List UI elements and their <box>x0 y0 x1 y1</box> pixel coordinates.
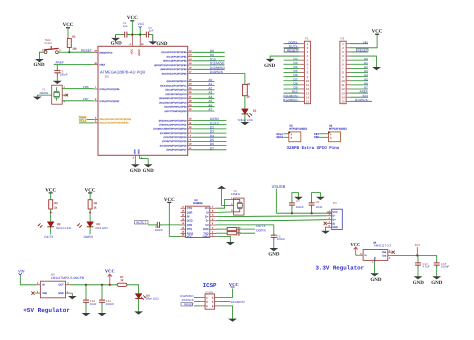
svg-text:100nF: 100nF <box>59 73 67 77</box>
svg-text:4.7uF: 4.7uF <box>422 265 430 269</box>
connector P2 pin 14 <box>341 94 368 100</box>
ICSP pin 3 <box>182 298 209 303</box>
U4 TAB nc <box>388 249 395 254</box>
svg-text:D12/MISO: D12/MISO <box>283 98 298 102</box>
svg-text:D+: D+ <box>205 216 209 219</box>
svg-text:D1/TX: D1/TX <box>44 235 54 239</box>
svg-text:(XTAL2/TOSC2)PB7: (XTAL2/TOSC2)PB7 <box>99 100 120 103</box>
ICSP pin 6 <box>212 305 220 308</box>
ground U4 <box>370 273 382 283</box>
MCU U1 ATMEGA328PB <box>98 46 188 155</box>
svg-text:100nF: 100nF <box>296 205 304 209</box>
svg-text:GND: GND <box>33 62 45 68</box>
wire D4 to gnd <box>138 299 140 312</box>
U3 TAB pin4 <box>31 290 40 294</box>
ICSP pin 4 <box>212 301 220 304</box>
connector P3 USB <box>332 201 343 229</box>
MCU pin analog A3 <box>166 91 215 96</box>
net label RESET U2 <box>134 221 148 225</box>
svg-text:15: 15 <box>306 100 310 104</box>
power flag VCC top <box>127 15 138 34</box>
svg-text:R1: R1 <box>72 35 76 38</box>
svg-text:AREF: AREF <box>99 64 105 67</box>
svg-text:(AIN1/PCINT23)PD7: (AIN1/PCINT23)PD7 <box>166 149 187 152</box>
switch SW1 <box>42 38 61 54</box>
wire U2 D+ to P3 <box>217 215 327 218</box>
power flag VCC 5V out <box>105 269 115 285</box>
svg-text:VCC: VCC <box>105 269 115 274</box>
svg-text:D0/RX: D0/RX <box>84 235 94 239</box>
svg-text:SCL1: SCL1 <box>79 119 87 123</box>
wire VCC to U2 <box>169 235 180 237</box>
wire D2 to label <box>50 227 52 235</box>
svg-text:GND: GND <box>58 292 64 295</box>
connector P1 pin 6 <box>284 61 309 67</box>
MCU pin VCC top <box>130 35 133 47</box>
MCU pin 7 XTAL1 <box>93 86 120 91</box>
svg-text:(MOSI/TXD1/OC2A/PCINT3)PB3: (MOSI/TXD1/OC2A/PCINT3)PB3 <box>154 64 187 67</box>
svg-text:CH340G: CH340G <box>193 202 203 205</box>
connector P2 pin 2 <box>342 46 350 50</box>
connector P1 pin 7 <box>284 65 309 71</box>
svg-text:P2: P2 <box>340 36 344 40</box>
net label SDA1 <box>79 115 94 119</box>
svg-text:RESET: RESET <box>287 49 297 53</box>
wire XI to Y2 <box>217 211 234 214</box>
net label VCC (AVCC feed) <box>138 22 145 34</box>
svg-text:Red LED: Red LED <box>96 226 109 230</box>
ground U3 <box>68 296 77 299</box>
wire Y2 case to gnd <box>222 189 234 206</box>
wire D- continues <box>270 220 327 221</box>
svg-text:SDA1: SDA1 <box>276 136 283 139</box>
connector P1 pin 3 <box>284 49 309 55</box>
svg-text:MTP125-1102E1: MTP125-1102E1 <box>329 128 348 131</box>
wire AREF down to C3 <box>56 65 58 71</box>
svg-text:(SDA0/ADC4/PCINT12)PC4: (SDA0/ADC4/PCINT12)PC4 <box>159 97 187 100</box>
U2 pin CTS <box>181 205 193 210</box>
connector P1 pin 15 <box>283 98 309 104</box>
ground MCU-1 <box>130 164 142 174</box>
ground C7 <box>294 197 303 200</box>
wire D13 to R2 <box>244 74 246 85</box>
wire D1 to gnd <box>244 114 246 122</box>
svg-text:3.3V Regulator: 3.3V Regulator <box>315 265 364 272</box>
connector P2 pin 1 <box>342 40 368 46</box>
junction reset node <box>68 51 70 53</box>
svg-text:(ADC0/PCINT8)PC0: (ADC0/PCINT8)PC0 <box>167 80 188 83</box>
wire P2 pin4 to gnd <box>351 56 377 67</box>
svg-text:DSR: DSR <box>187 211 193 214</box>
svg-text:10uF: 10uF <box>90 302 97 306</box>
svg-text:V3: V3 <box>205 224 209 227</box>
ground D1 <box>241 122 250 125</box>
power flag VCC ICSP <box>229 282 239 287</box>
svg-text:100nF: 100nF <box>277 237 285 241</box>
svg-text:(SCK/XCK1/PCINT5)PB5: (SCK/XCK1/PCINT5)PB5 <box>162 72 188 75</box>
svg-text:(XCK/T0/PCINT20)PD4: (XCK/T0/PCINT20)PD4 <box>164 136 188 139</box>
MCU pin 29 RESET <box>93 50 113 55</box>
ground C8 <box>316 197 325 200</box>
junction R4/D3 <box>89 212 91 214</box>
connector P1 <box>304 36 310 103</box>
wire C4 to DTR <box>160 224 181 226</box>
power flag VCC R3 <box>45 187 56 199</box>
regulator U4 AMS1117-3.3 <box>363 241 391 261</box>
svg-text:LM1117MPX-5.0NCPB: LM1117MPX-5.0NCPB <box>51 276 85 280</box>
svg-text:15: 15 <box>341 100 345 104</box>
MCU pin PD6 net D6 <box>160 142 227 147</box>
MCU GND pin 5 <box>140 155 149 164</box>
capacitor C7 <box>289 193 304 214</box>
P3 pin GND <box>327 224 338 229</box>
MCU pin analog A4 <box>159 95 214 100</box>
connector P2 pin 4 <box>342 54 350 58</box>
ground C11 <box>98 313 107 316</box>
svg-text:GND: GND <box>268 251 280 257</box>
junction C11 <box>101 284 103 286</box>
svg-text:D7: D7 <box>210 146 214 150</box>
wire node to MCU RESET <box>69 51 93 53</box>
connector P2 pin 7 <box>342 65 368 71</box>
net label PB6 U6 <box>314 136 329 139</box>
header U5 <box>288 125 308 142</box>
junction C8 <box>311 212 313 214</box>
svg-text:VCC: VCC <box>131 49 134 54</box>
wire C6 to gnd <box>273 237 275 248</box>
svg-text:(OC0A/AIN0/PCINT22)PD6: (OC0A/AIN0/PCINT22)PD6 <box>160 144 188 147</box>
svg-text:Out: Out <box>382 254 386 257</box>
ground Y1 <box>33 97 42 100</box>
wire C1 to VCC node <box>127 34 140 36</box>
resistor R2 <box>243 83 251 99</box>
wire U3 OUT rail <box>66 282 118 285</box>
U3 GND pin1 <box>66 290 73 296</box>
U2 pin RTS <box>181 226 193 231</box>
svg-text:(OC3B/OC4B/INT0/PCINT18)PD2: (OC3B/OC4B/INT0/PCINT18)PD2 <box>153 128 187 131</box>
svg-text:(SCL0/ADC5/PCINT13)PC5: (SCL0/ADC5/PCINT13)PC5 <box>159 101 187 104</box>
wire R3 to D2 <box>50 209 52 222</box>
U2 pin D+ <box>205 214 216 219</box>
svg-text:GND: GND <box>156 41 168 47</box>
MCU pin 3 SDA1 <box>93 117 132 122</box>
U2 pin V3 <box>205 222 216 227</box>
ground P3 <box>321 231 330 234</box>
connector P1 pin 9 <box>284 73 309 79</box>
U2 pin VCC <box>181 234 193 239</box>
ground C15 <box>431 276 443 286</box>
wire P3 GND <box>326 227 327 231</box>
wire Y1 pin3 to PB7 <box>62 100 93 102</box>
svg-text:RI: RI <box>187 216 190 219</box>
LED D1 yellow <box>238 109 257 122</box>
connector P2 pin 13 <box>341 90 368 96</box>
wire ICSP pin4 label <box>220 300 245 304</box>
wire ICSP pin6 to gnd <box>220 306 233 319</box>
wire R2 to D1 <box>244 96 246 109</box>
svg-text:GND: GND <box>370 277 382 283</box>
U4 OUT <box>388 255 392 259</box>
wire top rail <box>116 34 125 36</box>
junction C10 <box>85 284 87 286</box>
wire SW1 right to node <box>58 51 69 53</box>
net label VIN <box>18 268 25 284</box>
wire V3 to C6 <box>217 225 274 235</box>
connector P1 pin 10 <box>284 77 310 83</box>
svg-text:D13/SCK: D13/SCK <box>210 70 224 74</box>
svg-text:DCD: DCD <box>187 220 193 223</box>
svg-text:RESET: RESET <box>81 48 92 52</box>
ground ICSP <box>228 319 237 322</box>
svg-text:GND: GND <box>333 226 339 229</box>
MCU GND pin 3 <box>133 155 136 164</box>
wire AREF to MCU <box>54 64 94 66</box>
MCU pin 20 AREF <box>93 62 105 67</box>
MCU pin analog A5 <box>159 99 214 104</box>
wire D3 to label <box>89 227 91 235</box>
svg-text:CTS: CTS <box>187 207 193 210</box>
capacitor C14 <box>415 255 430 276</box>
MCU pin PD7 net D7 <box>166 146 226 151</box>
svg-text:AVCC: AVCC <box>138 49 141 56</box>
power flag VCC 3V3 reg <box>350 242 360 255</box>
crystal Y1 16MHz <box>39 85 66 104</box>
ground top-right <box>148 35 167 47</box>
wire Y1 pin1 to PB6 <box>62 88 93 90</box>
connector P2 pin 15 <box>341 98 372 104</box>
junction R3/D2 <box>50 212 52 214</box>
svg-text:GND: GND <box>203 235 209 238</box>
MCU pin PD5 net D5 <box>162 138 226 143</box>
connector P1 pin 2 <box>284 44 309 50</box>
svg-text:R3: R3 <box>54 202 58 205</box>
junction VCC out <box>109 284 111 286</box>
resistor R7 <box>117 276 127 286</box>
capacitor C2 <box>144 26 154 38</box>
svg-text:IN: IN <box>42 284 45 287</box>
ground C14 <box>413 276 425 286</box>
crystal Y2 12MHz <box>231 189 244 215</box>
ground P1 <box>264 59 276 69</box>
LED D2 Green LED <box>38 222 72 230</box>
svg-text:(ADC3/PCINT11)PC3: (ADC3/PCINT11)PC3 <box>166 93 188 96</box>
svg-text:VCC: VCC <box>350 242 360 247</box>
connector P2 pin 8 <box>342 69 368 75</box>
svg-text:3V3: 3V3 <box>415 243 421 247</box>
LED D4 blue <box>135 294 159 301</box>
svg-text:GND: GND <box>133 149 136 154</box>
wire C3 to gnd <box>56 73 58 81</box>
svg-text:(CLKO/ICP1/PCINT0)PB0: (CLKO/ICP1/PCINT0)PB0 <box>161 51 187 54</box>
net label SCL1 U5 <box>276 133 288 136</box>
wire R7 to D4 <box>127 285 139 294</box>
svg-text:GND: GND <box>130 168 142 174</box>
connector P2 pin 5 <box>342 57 368 63</box>
header U6 <box>328 125 348 142</box>
junction C7 <box>291 212 293 214</box>
svg-text:VCC: VCC <box>229 282 239 287</box>
svg-text:P3: P3 <box>333 201 337 205</box>
svg-text:(ADC2/PCINT10)PC2: (ADC2/PCINT10)PC2 <box>165 89 187 92</box>
svg-text:12MHz: 12MHz <box>231 192 241 196</box>
svg-text:ID: ID <box>333 222 336 225</box>
svg-text:GND: GND <box>137 149 140 154</box>
wire U2 D- to P3 <box>217 220 271 222</box>
U2 pin DTR <box>181 222 193 227</box>
P3 pin ID <box>327 221 336 226</box>
svg-text:XI: XI <box>206 211 209 214</box>
resistor R5 <box>217 227 256 233</box>
wire P1 pin4 to gnd <box>270 56 300 59</box>
svg-text:D0/RX: D0/RX <box>256 229 267 233</box>
svg-text:GND: GND <box>413 280 425 286</box>
MCU pin PD4 net D4 <box>164 134 227 139</box>
connector P2 pin 10 <box>341 77 368 83</box>
power flag VCC P2 <box>372 29 383 35</box>
wire VIN to U3 <box>20 284 36 286</box>
U2 pin TXD <box>203 231 216 236</box>
svg-text:A7: A7 <box>208 108 212 112</box>
svg-text:RESET: RESET <box>184 303 194 307</box>
ground C6 <box>268 248 280 257</box>
MCU pin PD1 net D1/TX <box>159 121 226 126</box>
svg-text:PB6: PB6 <box>314 136 319 139</box>
svg-text:C8: C8 <box>316 200 320 204</box>
svg-text:(SS/OC1B/PCINT2)PB2: (SS/OC1B/PCINT2)PB2 <box>163 60 187 63</box>
ICSP pin 1 <box>180 294 208 299</box>
svg-text:100nF: 100nF <box>106 302 114 306</box>
P3 pin D- <box>327 213 336 218</box>
svg-text:R4: R4 <box>94 202 98 205</box>
svg-text:D11/MOSI: D11/MOSI <box>231 300 245 304</box>
connector P1 pin 1 <box>284 40 309 46</box>
svg-text:OUT: OUT <box>58 284 64 287</box>
capacitor C8 <box>309 193 323 214</box>
svg-text:10k: 10k <box>72 47 77 50</box>
svg-text:R2: R2 <box>247 83 251 86</box>
ICSP pin 5 <box>181 303 208 308</box>
svg-text:VIN: VIN <box>18 268 25 273</box>
power flag VCC R4 <box>85 187 96 199</box>
no-connect Y1 pin2 <box>62 94 68 97</box>
wire RESET to C4 <box>148 224 157 226</box>
connector P2 pin 6 <box>342 61 368 67</box>
svg-text:VIN: VIN <box>363 40 368 44</box>
svg-text:10uF: 10uF <box>316 205 323 209</box>
connector P1 pin 14 <box>283 94 309 100</box>
svg-text:100nF: 100nF <box>441 265 449 269</box>
wire C2 to gnd <box>149 34 153 36</box>
MCU pin PB0 net D8 <box>161 49 225 54</box>
regulator U3 LM1117-5.0 <box>40 272 85 298</box>
svg-text:ICSP: ICSP <box>203 282 217 289</box>
junction VCC node <box>131 34 133 36</box>
junction AVCC node <box>139 34 141 36</box>
MCU pin analog A2 <box>165 87 214 92</box>
capacitor C15 <box>434 255 450 276</box>
USB-serial U2 CH340G <box>186 199 210 237</box>
MCU pin 6 SCL1 <box>93 120 129 125</box>
svg-text:D-: D- <box>333 215 336 218</box>
U2 pin D- <box>206 218 217 223</box>
junction 3V3 <box>416 254 418 256</box>
U2 pin GND <box>203 234 217 239</box>
wire U2 GND <box>217 236 231 242</box>
svg-text:VCC: VCC <box>333 211 338 214</box>
U2 pin DSR <box>181 210 193 215</box>
MCU pin PB2 net D10 <box>163 57 225 62</box>
svg-text:P1: P1 <box>305 36 309 40</box>
svg-text:(RESET)PC6: (RESET)PC6 <box>99 51 113 54</box>
connector P1 pin 13 <box>284 90 310 96</box>
net label SCL1 <box>79 119 94 123</box>
svg-text:(OC0B/T1/PCINT21)PD5: (OC0B/T1/PCINT21)PD5 <box>162 140 187 143</box>
capacitor C4 <box>155 222 163 232</box>
ground SW1 <box>33 59 45 68</box>
U2 pin DCD <box>181 218 193 223</box>
svg-text:(OC1A/PCINT1)PB1: (OC1A/PCINT1)PB1 <box>167 55 188 58</box>
P3 pin VCC <box>327 209 338 214</box>
ICSP pin 2 <box>212 296 220 299</box>
U4 GND down <box>372 260 374 273</box>
svg-text:DTR: DTR <box>187 224 193 227</box>
ground P2 <box>372 67 381 70</box>
svg-text:Green LED: Green LED <box>56 226 72 230</box>
MCU pin PB3 net D11/MOSI <box>154 62 225 67</box>
ground MCU-2 <box>143 164 155 174</box>
resistor R4 <box>88 200 97 210</box>
wire Y1 case to gnd <box>37 95 51 97</box>
net label 3V3 <box>415 243 421 255</box>
U3 pin3 stub <box>37 282 41 285</box>
svg-text:(TXD0/OC4A/PCINT17)PD1: (TXD0/OC4A/PCINT17)PD1 <box>159 124 187 127</box>
svg-text:C7: C7 <box>296 199 300 203</box>
svg-text:VCC: VCC <box>187 235 193 238</box>
wire SW1 left to gnd <box>39 52 44 59</box>
connector P1 pin 8 <box>284 69 309 75</box>
connector P2 <box>340 36 346 103</box>
MCU pin PB4 net D12/MISO <box>160 66 225 71</box>
MCU pin AVCC top <box>140 35 144 47</box>
ground C3 <box>53 81 62 84</box>
svg-text:MTP125-1102E1: MTP125-1102E1 <box>289 128 308 131</box>
capacitor C11 <box>99 285 114 313</box>
U2 pin RI <box>181 214 190 219</box>
net label V3USB <box>272 184 286 213</box>
svg-text:(SCL1/T4/ACO/PCINT25)PE1: (SCL1/T4/ACO/PCINT25)PE1 <box>99 122 129 125</box>
svg-text:RESET: RESET <box>357 49 367 53</box>
wire AVCC to C2 <box>140 34 146 36</box>
U2 pin XI <box>206 210 216 215</box>
svg-text:Blue LED: Blue LED <box>146 297 160 301</box>
capacitor C1 <box>122 21 129 38</box>
svg-text:D13/SCK: D13/SCK <box>355 98 369 102</box>
ground D4 <box>134 311 143 314</box>
wire V3USB rail <box>276 212 331 214</box>
svg-text:PB7: PB7 <box>83 97 89 101</box>
P3 pin D+ <box>327 217 337 222</box>
MCU pin analog A1 <box>160 82 214 87</box>
svg-text:(XTAL1/TOSC1)PB6: (XTAL1/TOSC1)PB6 <box>99 88 120 91</box>
wire ICSP pin2 to VCC <box>220 289 233 298</box>
svg-text:(ADC7/T3/MOSI1)PE3: (ADC7/T3/MOSI1)PE3 <box>164 110 187 113</box>
ground Y2 (flipped) <box>217 186 226 189</box>
wire P2 pin2 to VCC <box>351 34 378 47</box>
ground U2 <box>226 242 235 245</box>
resistor R3 <box>49 200 58 210</box>
connector P1 pin 11 <box>284 81 310 87</box>
svg-text:GND: GND <box>111 41 123 47</box>
